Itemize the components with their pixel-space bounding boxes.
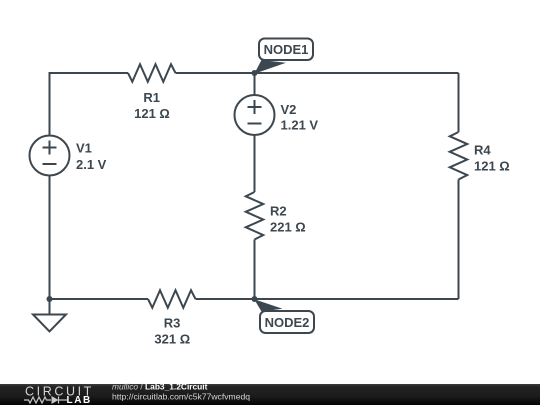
svg-text:221 Ω: 221 Ω (270, 219, 306, 234)
wire bottom-left: ground node to R3 (50, 298, 149, 300)
resistor R2 (246, 192, 264, 240)
svg-text:http://circuitlab.com/c5k77wcf: http://circuitlab.com/c5k77wcfvmedq (112, 392, 250, 402)
svg-text:mullico / Lab3_1.2Circuit: mullico / Lab3_1.2Circuit (112, 382, 208, 392)
svg-text:LAB: LAB (67, 395, 92, 405)
wire left: V1 bottom to bottom-left corner (49, 176, 51, 300)
svg-text:V1: V1 (76, 141, 92, 156)
node label NODE2 (254, 299, 314, 333)
ground (33, 299, 66, 332)
footer logo resistor-diode line (24, 397, 67, 404)
svg-text:R2: R2 (270, 204, 287, 219)
svg-text:V2: V2 (281, 102, 297, 117)
voltage source V2 (235, 95, 275, 135)
wire top-middle: R1 to top-right corner through NODE1 (176, 72, 459, 74)
node A junction dot NODE1 (252, 70, 258, 76)
wire V2 bottom to R2 (254, 135, 256, 192)
svg-text:121 Ω: 121 Ω (134, 106, 170, 121)
wire R2 to NODE2 (254, 240, 256, 300)
svg-text:R1: R1 (143, 90, 160, 105)
wire top-left: V1 top to R1 (50, 73, 129, 136)
svg-text:321 Ω: 321 Ω (154, 331, 190, 346)
footer logo diode triangle (52, 396, 59, 404)
footer bar (0, 384, 540, 405)
svg-text:R3: R3 (164, 316, 181, 331)
svg-text:1.21 V: 1.21 V (281, 118, 319, 133)
node label NODE1 (254, 39, 313, 74)
wire NODE1 to V2 top (254, 73, 256, 95)
node B junction dot NODE2 (252, 296, 258, 302)
voltage source V1 (30, 136, 70, 176)
ground junction dot (47, 296, 53, 302)
svg-text:NODE2: NODE2 (265, 315, 310, 330)
svg-text:R4: R4 (474, 143, 491, 158)
wire right-top: top-right corner to R4 (458, 73, 460, 132)
wire right-bottom: R4 to bottom-right corner (458, 180, 460, 300)
resistor R1 (128, 64, 176, 82)
wire bottom-right: R3 to bottom-right corner through NODE2 (196, 298, 459, 300)
svg-text:2.1 V: 2.1 V (76, 157, 107, 172)
resistor R4 (450, 132, 468, 180)
svg-text:NODE1: NODE1 (264, 42, 309, 57)
resistor R3 (148, 290, 196, 308)
svg-text:121 Ω: 121 Ω (474, 159, 510, 174)
